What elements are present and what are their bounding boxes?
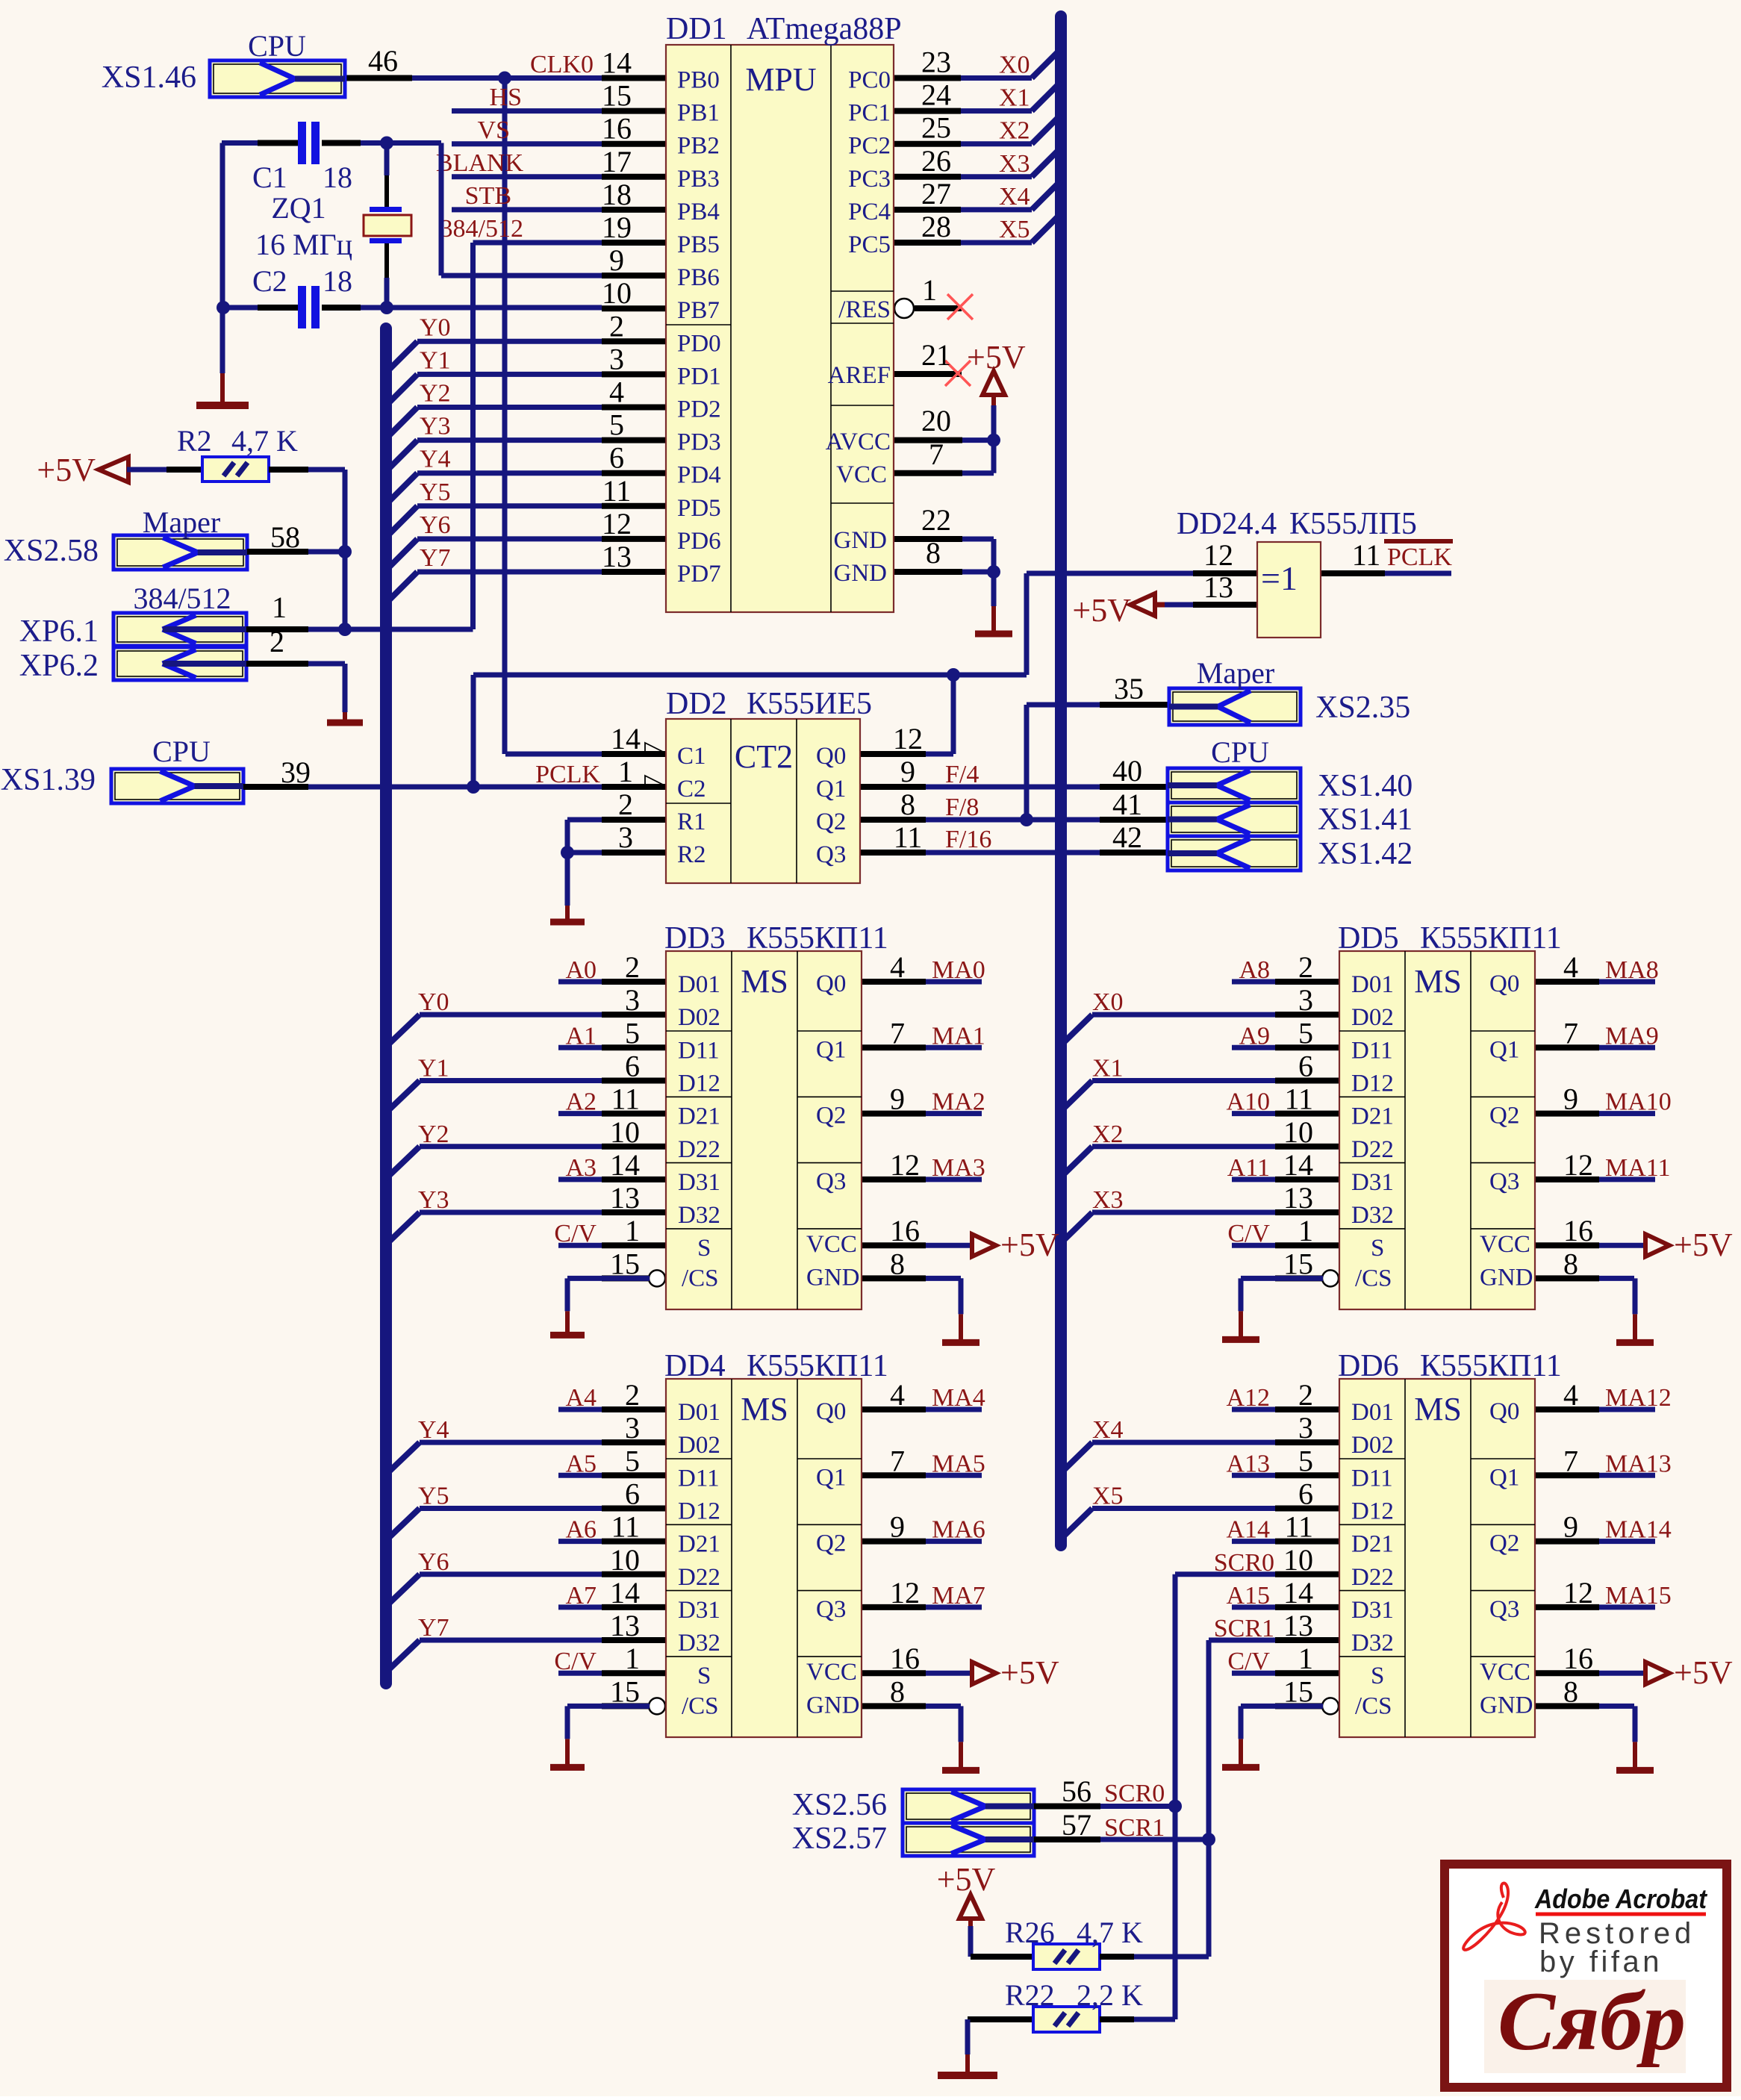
svg-text:25: 25 (921, 111, 951, 145)
svg-text:Y0: Y0 (420, 314, 451, 341)
svg-text:Y6: Y6 (420, 511, 451, 539)
svg-text:Q1: Q1 (1489, 1036, 1519, 1063)
svg-text:MA15: MA15 (1605, 1582, 1672, 1610)
svg-text:MS: MS (741, 1391, 788, 1427)
svg-text:PB5: PB5 (677, 231, 720, 258)
svg-text:PB6: PB6 (677, 264, 720, 291)
svg-text:К555ЛП5: К555ЛП5 (1289, 507, 1417, 541)
svg-text:CPU: CPU (152, 735, 211, 768)
svg-text:MA3: MA3 (932, 1154, 985, 1182)
svg-text:13: 13 (1283, 1609, 1313, 1642)
svg-text:11: 11 (1352, 538, 1381, 572)
svg-text:C/V: C/V (1227, 1648, 1270, 1675)
svg-text:X3: X3 (999, 150, 1030, 178)
svg-text:К555КП11: К555КП11 (747, 921, 888, 956)
svg-text:PB3: PB3 (677, 166, 720, 193)
svg-text:MS: MS (1414, 963, 1462, 1000)
svg-text:GND: GND (1480, 1264, 1533, 1291)
svg-text:57: 57 (1062, 1808, 1091, 1842)
svg-text:14: 14 (610, 1148, 640, 1182)
svg-text:X2: X2 (1092, 1121, 1124, 1148)
svg-text:15: 15 (610, 1247, 640, 1280)
svg-text:A14: A14 (1226, 1516, 1270, 1544)
svg-text:SCR0: SCR0 (1214, 1549, 1274, 1577)
svg-text:C/V: C/V (554, 1648, 597, 1675)
svg-text:+5V: +5V (1674, 1654, 1733, 1691)
svg-text:К555ИЕ5: К555ИЕ5 (747, 687, 872, 721)
svg-text:VCC: VCC (836, 461, 887, 488)
svg-text:11: 11 (611, 1510, 640, 1544)
svg-text:D11: D11 (1351, 1037, 1393, 1064)
svg-text:7: 7 (1563, 1016, 1578, 1050)
svg-text:28: 28 (921, 210, 951, 243)
svg-text:Q3: Q3 (816, 1168, 846, 1195)
svg-text:8: 8 (900, 788, 915, 821)
svg-text:MA14: MA14 (1605, 1516, 1672, 1544)
svg-text:5: 5 (625, 1444, 640, 1477)
svg-text:VCC: VCC (1480, 1231, 1530, 1258)
svg-text:42: 42 (1112, 820, 1142, 854)
svg-text:Maper: Maper (143, 505, 220, 539)
svg-text:Q1: Q1 (816, 1036, 846, 1063)
svg-text:Q2: Q2 (1489, 1103, 1519, 1130)
svg-text:19: 19 (602, 211, 632, 244)
svg-text:MA5: MA5 (932, 1450, 985, 1477)
svg-text:PD7: PD7 (677, 561, 721, 588)
svg-text:X0: X0 (999, 52, 1030, 79)
svg-text:6: 6 (625, 1477, 640, 1510)
svg-text:10: 10 (602, 276, 632, 310)
svg-text:4: 4 (609, 376, 624, 409)
svg-text:MS: MS (1414, 1391, 1462, 1427)
svg-text:D02: D02 (1351, 1432, 1394, 1459)
svg-text:PD6: PD6 (677, 528, 721, 555)
svg-text:Q2: Q2 (816, 1530, 846, 1557)
svg-text:Q2: Q2 (816, 808, 846, 835)
svg-text:24: 24 (921, 78, 951, 112)
svg-text:1: 1 (625, 1214, 640, 1247)
svg-text:384/512: 384/512 (133, 582, 231, 615)
svg-text:DD6: DD6 (1338, 1349, 1399, 1383)
svg-text:16: 16 (890, 1214, 920, 1247)
svg-text:D22: D22 (678, 1136, 720, 1163)
svg-text:A8: A8 (1239, 956, 1270, 984)
svg-text:Y0: Y0 (418, 988, 449, 1016)
svg-text:A15: A15 (1226, 1582, 1270, 1610)
svg-text:XS2.35: XS2.35 (1315, 691, 1410, 725)
svg-text:4: 4 (890, 1378, 905, 1412)
svg-text:XS1.39: XS1.39 (1, 763, 96, 797)
svg-text:1: 1 (922, 273, 937, 307)
svg-text:D21: D21 (678, 1103, 720, 1130)
svg-text:3: 3 (1298, 1411, 1313, 1445)
svg-text:D12: D12 (678, 1070, 720, 1097)
svg-text:MA4: MA4 (932, 1384, 985, 1412)
svg-text:26: 26 (921, 144, 951, 178)
svg-text:D21: D21 (1351, 1531, 1394, 1558)
svg-text:9: 9 (609, 243, 624, 277)
svg-text:PC2: PC2 (848, 133, 891, 160)
svg-text:Y4: Y4 (420, 446, 451, 473)
svg-text:21: 21 (921, 338, 951, 372)
svg-text:8: 8 (890, 1674, 905, 1708)
svg-text:11: 11 (1284, 1510, 1313, 1544)
svg-text:23: 23 (921, 46, 951, 79)
svg-text:GND: GND (834, 527, 888, 554)
svg-text:18: 18 (323, 161, 352, 194)
svg-text:X1: X1 (1092, 1054, 1124, 1082)
svg-text:15: 15 (1283, 1247, 1313, 1280)
svg-text:2: 2 (618, 788, 633, 821)
svg-text:384/512: 384/512 (440, 215, 523, 243)
svg-text:S: S (697, 1663, 711, 1689)
svg-text:CPU: CPU (248, 29, 306, 63)
svg-text:3: 3 (618, 820, 633, 854)
svg-text:16: 16 (890, 1642, 920, 1675)
svg-text:1: 1 (1298, 1642, 1313, 1675)
svg-text:14: 14 (602, 46, 632, 80)
svg-text:6: 6 (1298, 1477, 1313, 1510)
svg-text:2: 2 (625, 1378, 640, 1412)
svg-text:MA0: MA0 (932, 956, 985, 984)
svg-text:Q3: Q3 (1489, 1168, 1519, 1195)
svg-text:D32: D32 (1351, 1202, 1394, 1229)
svg-text:MA6: MA6 (932, 1516, 985, 1544)
svg-text:A13: A13 (1226, 1450, 1270, 1477)
svg-text:MA12: MA12 (1605, 1384, 1672, 1412)
svg-text:3: 3 (625, 1411, 640, 1445)
svg-text:C/V: C/V (1227, 1220, 1270, 1247)
svg-text:4: 4 (1563, 1378, 1578, 1412)
svg-text:PB2: PB2 (677, 133, 720, 160)
svg-text:D31: D31 (1351, 1169, 1394, 1196)
svg-text:X4: X4 (999, 183, 1030, 211)
svg-text:PC5: PC5 (848, 231, 891, 258)
svg-text:VS: VS (478, 116, 510, 144)
svg-text:15: 15 (610, 1674, 640, 1708)
svg-text:2: 2 (1298, 1378, 1313, 1412)
svg-text:Q0: Q0 (1489, 1398, 1519, 1425)
svg-text:D01: D01 (1351, 1399, 1394, 1426)
svg-text:A4: A4 (565, 1384, 597, 1412)
svg-text:1: 1 (625, 1642, 640, 1675)
svg-text:A6: A6 (565, 1516, 597, 1544)
svg-text:Q0: Q0 (816, 970, 846, 997)
svg-text:13: 13 (610, 1181, 640, 1215)
svg-text:1: 1 (618, 755, 633, 788)
svg-text:MA9: MA9 (1605, 1022, 1659, 1050)
svg-text:PCLK: PCLK (535, 761, 600, 788)
svg-text:Q1: Q1 (816, 1464, 846, 1491)
svg-text:3: 3 (609, 342, 624, 376)
svg-text:A1: A1 (565, 1022, 597, 1050)
svg-text:7: 7 (890, 1444, 905, 1477)
svg-text:13: 13 (1283, 1181, 1313, 1215)
svg-text:14: 14 (1283, 1148, 1313, 1182)
svg-text:X0: X0 (1092, 988, 1124, 1016)
svg-text:12: 12 (602, 507, 632, 540)
svg-text:PB4: PB4 (677, 199, 720, 225)
svg-text:R26: R26 (1005, 1916, 1055, 1949)
svg-text:A10: A10 (1226, 1088, 1270, 1116)
svg-text:X1: X1 (999, 84, 1030, 112)
svg-text:CPU: CPU (1211, 735, 1269, 769)
svg-text:F/8: F/8 (945, 794, 979, 821)
svg-text:R22: R22 (1005, 1978, 1055, 2012)
svg-text:Q0: Q0 (1489, 970, 1519, 997)
svg-text:D31: D31 (678, 1169, 720, 1196)
svg-text:PD3: PD3 (677, 429, 721, 456)
svg-text:ATmega88P: ATmega88P (747, 12, 902, 46)
svg-text:D01: D01 (678, 1399, 720, 1426)
svg-text:Adobe Acrobat: Adobe Acrobat (1534, 1884, 1708, 1914)
svg-text:S: S (1371, 1235, 1384, 1262)
svg-text:XS2.58: XS2.58 (4, 534, 99, 568)
svg-text:8: 8 (1563, 1674, 1578, 1708)
svg-text:12: 12 (893, 722, 923, 755)
svg-text:D21: D21 (678, 1531, 720, 1558)
svg-text:XS2.56: XS2.56 (792, 1788, 887, 1822)
svg-text:D11: D11 (1351, 1465, 1393, 1492)
svg-text:DD5: DD5 (1338, 921, 1399, 956)
svg-text:12: 12 (890, 1576, 920, 1610)
svg-text:D01: D01 (678, 971, 720, 998)
svg-text:ZQ1: ZQ1 (271, 191, 326, 225)
svg-text:2,2 K: 2,2 K (1077, 1978, 1143, 2012)
svg-text:A9: A9 (1239, 1022, 1270, 1050)
svg-text:VCC: VCC (806, 1659, 857, 1686)
svg-text:XS1.46: XS1.46 (102, 60, 196, 95)
svg-text:STB: STB (465, 182, 511, 210)
svg-text:DD3: DD3 (664, 921, 726, 956)
svg-text:A5: A5 (565, 1450, 597, 1477)
svg-text:CLK0: CLK0 (530, 51, 594, 78)
svg-text:10: 10 (610, 1543, 640, 1577)
svg-text:XP6.1: XP6.1 (19, 614, 99, 649)
svg-text:14: 14 (610, 1576, 640, 1610)
svg-text:/CS: /CS (682, 1265, 719, 1292)
svg-text:14: 14 (1283, 1576, 1313, 1610)
svg-text:6: 6 (1298, 1049, 1313, 1082)
svg-text:Y4: Y4 (418, 1416, 449, 1444)
svg-text:Q3: Q3 (1489, 1596, 1519, 1623)
svg-text:14: 14 (611, 722, 641, 755)
svg-text:SCR0: SCR0 (1104, 1780, 1165, 1807)
svg-text:46: 46 (368, 44, 398, 78)
svg-text:9: 9 (1563, 1082, 1578, 1116)
svg-text:Q2: Q2 (1489, 1530, 1519, 1557)
svg-text:D32: D32 (1351, 1630, 1394, 1657)
svg-text:R2: R2 (677, 841, 706, 868)
svg-text:5: 5 (1298, 1016, 1313, 1050)
svg-text:Y2: Y2 (420, 380, 451, 408)
svg-text:PB0: PB0 (677, 67, 720, 94)
svg-text:12: 12 (1203, 538, 1233, 572)
svg-text:6: 6 (609, 441, 624, 475)
svg-text:Q1: Q1 (1489, 1464, 1519, 1491)
svg-text:PD4: PD4 (677, 462, 721, 489)
svg-text:F/4: F/4 (945, 761, 979, 788)
svg-text:16: 16 (1563, 1642, 1593, 1675)
svg-text:D11: D11 (678, 1037, 720, 1064)
svg-text:GND: GND (806, 1264, 860, 1291)
svg-text:SCR1: SCR1 (1214, 1615, 1274, 1642)
svg-text:22: 22 (921, 503, 951, 537)
svg-text:D12: D12 (678, 1498, 720, 1524)
svg-text:XS2.57: XS2.57 (792, 1822, 887, 1856)
svg-text:12: 12 (1563, 1148, 1593, 1182)
svg-text:GND: GND (1480, 1692, 1533, 1719)
svg-text:Y6: Y6 (418, 1548, 449, 1576)
svg-text:D22: D22 (678, 1564, 720, 1591)
svg-text:GND: GND (806, 1692, 860, 1719)
svg-text:XS1.41: XS1.41 (1318, 803, 1413, 837)
svg-text:A7: A7 (565, 1582, 597, 1610)
svg-text:PC0: PC0 (848, 67, 891, 94)
svg-text:AREF: AREF (828, 362, 891, 389)
svg-text:PC3: PC3 (848, 166, 891, 193)
svg-text:+5V: +5V (967, 339, 1026, 376)
svg-text:Y5: Y5 (420, 479, 451, 506)
svg-text:3: 3 (625, 983, 640, 1017)
svg-text:Y1: Y1 (418, 1054, 449, 1082)
svg-text:12: 12 (890, 1148, 920, 1182)
svg-text:К555КП11: К555КП11 (747, 1349, 888, 1383)
svg-text:C1: C1 (252, 161, 287, 194)
svg-text:X5: X5 (999, 216, 1030, 243)
svg-text:/RES: /RES (838, 296, 891, 323)
svg-text:D32: D32 (678, 1630, 720, 1657)
svg-text:R2: R2 (177, 424, 212, 458)
svg-text:К555КП11: К555КП11 (1420, 1349, 1562, 1383)
svg-text:PD1: PD1 (677, 363, 721, 390)
svg-text:D22: D22 (1351, 1564, 1394, 1591)
svg-text:40: 40 (1112, 754, 1142, 788)
svg-text:Y7: Y7 (420, 544, 451, 572)
svg-text:15: 15 (602, 79, 632, 113)
svg-text:7: 7 (929, 437, 944, 471)
svg-text:8: 8 (1563, 1247, 1578, 1280)
svg-text:16 МГц: 16 МГц (255, 228, 352, 261)
svg-text:+5V: +5V (1674, 1227, 1733, 1263)
svg-text:18: 18 (602, 178, 632, 211)
svg-text:D12: D12 (1351, 1498, 1394, 1524)
svg-text:20: 20 (921, 404, 951, 437)
svg-text:+5V: +5V (37, 452, 96, 488)
svg-text:MA11: MA11 (1605, 1154, 1671, 1182)
svg-text:1: 1 (1298, 1214, 1313, 1247)
svg-text:4,7 K: 4,7 K (231, 424, 298, 458)
svg-text:Q0: Q0 (816, 743, 846, 770)
svg-text:MA2: MA2 (932, 1088, 985, 1116)
svg-text:MA8: MA8 (1605, 956, 1659, 984)
svg-text:D02: D02 (678, 1004, 720, 1031)
svg-text:5: 5 (625, 1016, 640, 1050)
svg-text:S: S (1371, 1663, 1384, 1689)
svg-text:/CS: /CS (1355, 1692, 1392, 1719)
svg-text:/CS: /CS (682, 1692, 719, 1719)
svg-text:D11: D11 (678, 1465, 720, 1492)
svg-text:BLANK: BLANK (436, 149, 524, 177)
svg-text:Y7: Y7 (418, 1614, 449, 1642)
svg-text:10: 10 (1283, 1115, 1313, 1149)
svg-text:Q3: Q3 (816, 1596, 846, 1623)
svg-text:C/V: C/V (554, 1220, 597, 1247)
svg-text:VCC: VCC (1480, 1659, 1530, 1686)
svg-text:/CS: /CS (1355, 1265, 1392, 1292)
svg-text:D31: D31 (1351, 1597, 1394, 1624)
svg-text:X5: X5 (1092, 1482, 1124, 1509)
svg-text:PD0: PD0 (677, 330, 721, 357)
svg-text:MA7: MA7 (932, 1582, 985, 1610)
svg-text:GND: GND (834, 560, 888, 587)
svg-text:35: 35 (1114, 672, 1144, 705)
svg-text:+5V: +5V (937, 1861, 996, 1898)
svg-text:SCR1: SCR1 (1104, 1814, 1165, 1842)
svg-text:9: 9 (1563, 1510, 1578, 1544)
svg-text:D32: D32 (678, 1202, 720, 1229)
svg-text:DD4: DD4 (664, 1349, 726, 1383)
svg-text:C1: C1 (677, 743, 706, 770)
svg-text:A3: A3 (565, 1154, 597, 1182)
svg-text:A2: A2 (565, 1088, 597, 1116)
svg-text:13: 13 (1203, 570, 1233, 604)
svg-text:1: 1 (272, 591, 287, 624)
svg-text:8: 8 (926, 536, 941, 570)
svg-text:15: 15 (1283, 1674, 1313, 1708)
svg-text:2: 2 (1298, 950, 1313, 984)
svg-text:MA1: MA1 (932, 1022, 985, 1050)
svg-text:Q0: Q0 (816, 1398, 846, 1425)
svg-text:A0: A0 (565, 956, 597, 984)
svg-text:D22: D22 (1351, 1136, 1394, 1163)
svg-text:4: 4 (1563, 950, 1578, 984)
svg-text:AVCC: AVCC (826, 429, 891, 455)
svg-text:PD2: PD2 (677, 396, 721, 423)
svg-text:D31: D31 (678, 1597, 720, 1624)
svg-text:D21: D21 (1351, 1103, 1394, 1130)
svg-text:DD2: DD2 (666, 687, 727, 721)
svg-text:18: 18 (323, 264, 352, 298)
svg-text:PD5: PD5 (677, 495, 721, 522)
svg-text:D12: D12 (1351, 1070, 1394, 1097)
svg-text:A11: A11 (1227, 1154, 1270, 1182)
svg-text:XS1.40: XS1.40 (1318, 769, 1413, 803)
svg-text:9: 9 (890, 1082, 905, 1116)
svg-text:A12: A12 (1226, 1384, 1270, 1412)
svg-text:16: 16 (1563, 1214, 1593, 1247)
svg-text:9: 9 (890, 1510, 905, 1544)
svg-text:PC1: PC1 (848, 100, 891, 127)
svg-text:PCLK: PCLK (1387, 543, 1452, 571)
svg-text:F/16: F/16 (945, 826, 991, 853)
svg-text:+5V: +5V (1000, 1654, 1059, 1691)
svg-text:10: 10 (610, 1115, 640, 1149)
svg-text:HS: HS (490, 84, 522, 111)
svg-text:XP6.2: XP6.2 (19, 649, 99, 683)
svg-text:6: 6 (625, 1049, 640, 1082)
svg-text:2: 2 (625, 950, 640, 984)
svg-text:7: 7 (890, 1016, 905, 1050)
svg-text:by fifan: by fifan (1539, 1945, 1663, 1978)
svg-text:PB1: PB1 (677, 100, 720, 127)
svg-text:MA13: MA13 (1605, 1450, 1672, 1477)
svg-text:4,7 K: 4,7 K (1077, 1916, 1143, 1949)
svg-text:12: 12 (1563, 1576, 1593, 1610)
svg-text:D02: D02 (1351, 1004, 1394, 1031)
svg-text:41: 41 (1112, 788, 1142, 821)
svg-text:D02: D02 (678, 1432, 720, 1459)
